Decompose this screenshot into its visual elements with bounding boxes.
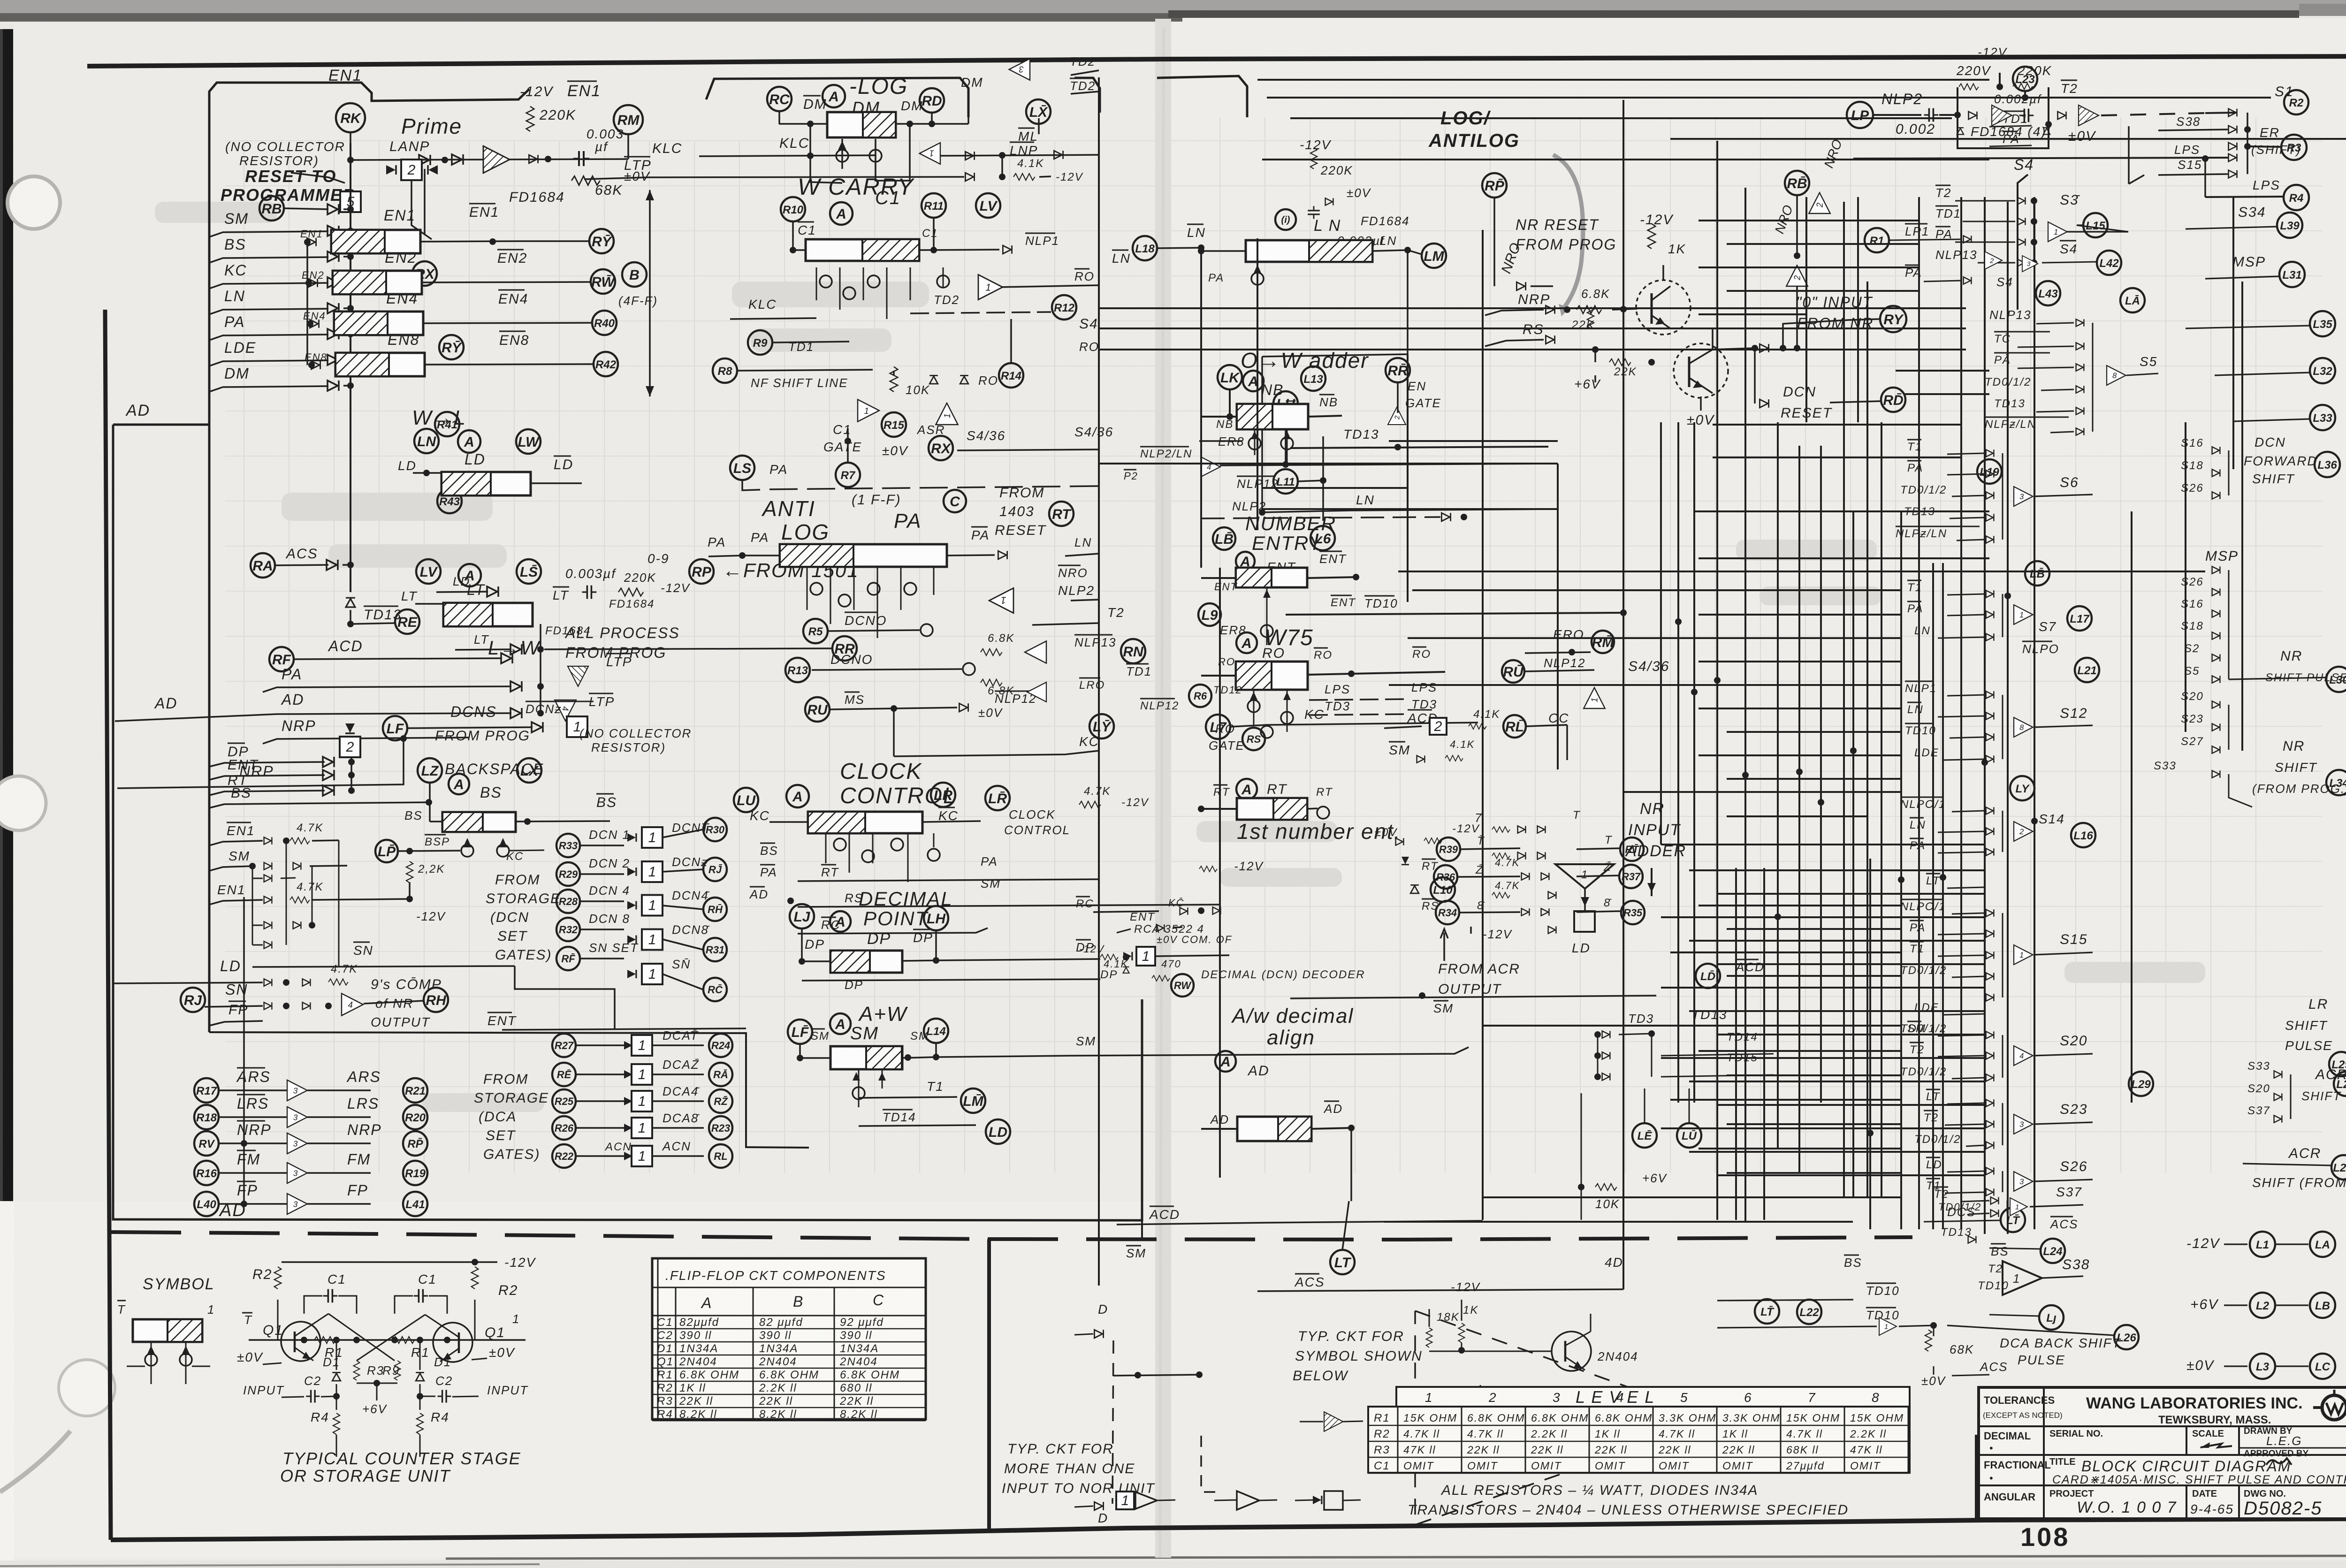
wire SM 47K row bbox=[209, 849, 347, 871]
diode pair c1 bbox=[929, 373, 998, 388]
connector LH bbox=[924, 906, 948, 930]
wire C1 pins bbox=[816, 267, 943, 319]
nor wires bbox=[1429, 1309, 1591, 1354]
res 10K c1 bbox=[890, 367, 930, 397]
flip-flop DM bbox=[803, 96, 923, 137]
circ ii bbox=[1275, 209, 1296, 230]
label -12V b bbox=[410, 882, 446, 923]
cap nlp2 b bbox=[1994, 92, 2042, 122]
box 5 bbox=[340, 191, 361, 212]
connector LFbar bbox=[788, 1020, 812, 1044]
wire BS right bbox=[516, 818, 610, 825]
level table box bbox=[1368, 1387, 1910, 1473]
amp row LRS bbox=[194, 1095, 427, 1129]
connector R42 bbox=[425, 352, 618, 376]
pins C1 row bbox=[820, 275, 949, 299]
label NLP12 L11 bbox=[1237, 436, 1326, 521]
scan: faint grid bleed bbox=[244, 117, 2256, 1173]
wire PA right bbox=[947, 551, 1007, 559]
wire LN down bbox=[1262, 250, 1408, 357]
counter R1 right bbox=[391, 1337, 450, 1360]
wire q out bbox=[1713, 344, 1786, 352]
connector R5 bbox=[803, 612, 933, 643]
label SM bot bbox=[1126, 1246, 1146, 1260]
label FD1684 c bbox=[1361, 214, 1410, 228]
label -12V adder bbox=[1440, 927, 1513, 961]
vertical DP bus2 bbox=[350, 757, 352, 791]
wire EN left feeds bbox=[306, 242, 308, 365]
dim arrow B bbox=[646, 190, 654, 396]
scan: bleedthrough smudges bbox=[155, 202, 2205, 1112]
wire LD row2 bbox=[436, 574, 498, 597]
wire box r bbox=[1581, 1093, 1582, 1220]
pins PA row bbox=[810, 583, 916, 607]
amp 9s comp bbox=[342, 993, 363, 1015]
wire box2 bend bbox=[411, 180, 432, 239]
pins SM bbox=[853, 1069, 886, 1107]
title wang bbox=[2086, 1394, 2303, 1426]
wire NLP2 pa bbox=[1071, 600, 1099, 601]
diode EN8 in bbox=[305, 351, 328, 369]
label KLC mid bbox=[779, 136, 809, 151]
adder box bbox=[1574, 911, 1595, 932]
hatch tri nlp2b bbox=[2079, 105, 2099, 126]
wire LN left bbox=[1198, 248, 1246, 254]
cap c bbox=[1308, 206, 1320, 219]
label pm0V q bbox=[1687, 396, 1715, 428]
wire dcn reset bbox=[1755, 348, 1833, 421]
label SMbar adder2 bbox=[1419, 992, 1454, 1015]
connector Acirc1 bbox=[458, 430, 480, 453]
flip-flop BS bbox=[442, 794, 617, 832]
label TD13 s37 bbox=[1941, 1226, 1976, 1243]
dcn row SN SET bbox=[556, 941, 727, 1001]
notes all resistors bbox=[1408, 1483, 1849, 1518]
stack bends bbox=[2129, 126, 2144, 184]
connector R10 bbox=[781, 197, 805, 221]
wire PA row bbox=[263, 666, 544, 692]
label S4-36 a bbox=[957, 428, 1099, 450]
label RT right bbox=[1307, 786, 1333, 819]
label BS bar r bbox=[1844, 1255, 1862, 1270]
label LTP mid bbox=[624, 157, 652, 173]
wire DP row bbox=[209, 743, 355, 767]
wire RM stem bbox=[627, 134, 629, 159]
flip-flop SM bbox=[830, 1046, 902, 1069]
gate cluster S4 bbox=[1865, 224, 2121, 284]
connector R40 bbox=[423, 311, 617, 335]
connector L33 bbox=[2233, 405, 2335, 430]
wire LN vert mid bbox=[1261, 357, 1263, 512]
connector A dp bbox=[830, 911, 851, 932]
transistor Q1 top bbox=[1636, 265, 1691, 335]
connector LRbar kc bbox=[985, 786, 1010, 810]
label RO w bbox=[1079, 340, 1099, 354]
label PAbar kc bbox=[760, 865, 777, 879]
amp adder s436 bbox=[1584, 659, 1669, 708]
label 41K adder bbox=[1469, 708, 1500, 729]
label NRP q bbox=[1485, 292, 1570, 315]
scan: center fold seam bbox=[1155, 19, 1171, 1558]
label RCA3522 rt bbox=[1134, 923, 1232, 945]
pulse shaper triangle prime bbox=[483, 146, 510, 173]
connector L31 bbox=[2205, 254, 2305, 287]
amp td10 bot bbox=[1717, 1308, 1937, 1335]
connector L10 bbox=[1410, 877, 1455, 902]
connector RX1 bbox=[412, 261, 437, 286]
label T2 mid bbox=[1032, 605, 1125, 625]
wire RC stem bbox=[779, 111, 827, 127]
label S4-36 b bbox=[1074, 425, 1113, 439]
flip-flop EN1 bbox=[331, 204, 499, 253]
label LN c bbox=[1314, 217, 1341, 235]
connector R14 bbox=[999, 319, 1023, 388]
label SM kc r bbox=[981, 876, 1001, 891]
AD inner bottom bbox=[209, 1032, 809, 1148]
gate cluster S3 bbox=[1935, 185, 2128, 266]
connector LR kc bbox=[931, 783, 955, 807]
label TD3 ro bbox=[1309, 697, 1437, 715]
counter R3 pair bbox=[353, 1361, 400, 1416]
label KCbar right bbox=[922, 807, 981, 823]
label TD2bar r bbox=[1070, 78, 1099, 94]
row LDbar acd bbox=[1696, 959, 1765, 988]
res 220K tr1 bbox=[1956, 63, 1991, 90]
connector R35 bbox=[1548, 897, 1645, 934]
cluster s37 b bbox=[1934, 1185, 2083, 1217]
node EN1bar label bbox=[567, 81, 601, 100]
stack LPS2 bbox=[2205, 178, 2309, 210]
ff table rows bbox=[652, 1287, 926, 1421]
diode mesh r1 bbox=[252, 875, 296, 882]
wire TD2 w bbox=[910, 293, 1051, 313]
diode EN2 in bbox=[302, 269, 325, 287]
wire T1 LM bbox=[859, 1079, 985, 1113]
connector L32 bbox=[2215, 358, 2335, 383]
counter top rail bbox=[282, 1255, 536, 1270]
counter pm0v right bbox=[472, 1345, 515, 1360]
label NLP12 b bbox=[1140, 699, 1179, 712]
label ACR shift2 bbox=[2243, 1146, 2346, 1190]
connector RDbar q bbox=[1830, 388, 1905, 412]
cap 0.003 LT bbox=[565, 566, 617, 599]
res 220K LT bbox=[618, 571, 691, 596]
nor 1K bbox=[1451, 1280, 1481, 1343]
label NLP2 tr bbox=[1881, 91, 1923, 107]
note 9s comp bbox=[371, 977, 442, 1029]
connector A dm bbox=[823, 85, 845, 107]
diode NLP1 bbox=[1003, 233, 1059, 254]
connector RK bbox=[336, 103, 365, 132]
wire KC long bbox=[1230, 707, 1478, 727]
label KLC rm bbox=[652, 141, 682, 156]
level table content bbox=[1368, 1390, 1910, 1473]
wire input KC bbox=[209, 262, 354, 289]
dcn row DCN 4 bbox=[556, 883, 727, 921]
wire input BS bbox=[209, 236, 354, 263]
note from storage dcn bbox=[486, 872, 561, 963]
res 68K q bbox=[1577, 287, 1638, 313]
connector LZ bbox=[418, 758, 442, 783]
diode TD13 bottom bbox=[346, 598, 355, 607]
dca row DCA4&#772; bbox=[552, 1084, 732, 1113]
gate cluster S6 bbox=[1896, 440, 2093, 543]
amp c1 left bbox=[858, 399, 879, 421]
label SM hand bbox=[850, 1024, 879, 1043]
label -12V rt bbox=[1199, 859, 1264, 873]
label RS q bbox=[1485, 322, 1555, 346]
note no collector 2 bbox=[579, 726, 692, 754]
label RS mid bbox=[798, 891, 1220, 907]
AD section outline bbox=[209, 83, 529, 422]
pin dm1 bbox=[836, 139, 848, 169]
connector L7 bbox=[1206, 715, 1230, 739]
label pm0v dcno bbox=[978, 706, 1003, 720]
label decoder bbox=[1201, 968, 1365, 981]
power L3 LC bbox=[2186, 1354, 2335, 1379]
middle outline right bbox=[1074, 76, 1247, 117]
page number 108 bbox=[2020, 1522, 2070, 1552]
flip-flop LT bbox=[443, 581, 569, 626]
title scale bbox=[2192, 1426, 2239, 1455]
label PA a bbox=[769, 462, 788, 477]
dcn row DCN 2 bbox=[556, 855, 727, 886]
connector RU bbox=[805, 692, 897, 722]
connector LV bbox=[416, 559, 441, 584]
wire LP row bbox=[1873, 108, 1961, 137]
box 2b bbox=[340, 723, 360, 757]
label DM top right bbox=[961, 75, 983, 90]
label 4D bbox=[1605, 1255, 1623, 1270]
connector R43 bbox=[437, 489, 462, 513]
label ENT hand bbox=[1267, 560, 1296, 574]
label prime pencil bbox=[401, 114, 462, 138]
connector L6 bbox=[1310, 526, 1335, 550]
dca row DCAZ&#772; bbox=[552, 1058, 732, 1086]
title project bbox=[2049, 1485, 2186, 1519]
transistor Q2 top bbox=[1674, 343, 1728, 398]
hatched tri LTP bbox=[568, 666, 588, 686]
connector A kc bbox=[786, 785, 809, 807]
dashed separator left page bbox=[111, 1232, 988, 1239]
label NRO vert bbox=[1499, 241, 1524, 275]
AD section outline left lower bbox=[208, 422, 211, 1032]
label -12V rt2 bbox=[1079, 943, 1129, 973]
stack LPS bbox=[1853, 143, 2237, 162]
label 47K c2 bbox=[1492, 880, 1520, 898]
connector R37 bbox=[1548, 861, 1643, 899]
label LTP1 bbox=[606, 654, 632, 669]
label NR shift bbox=[2229, 738, 2346, 807]
note typ ckt more bbox=[1002, 1441, 1155, 1496]
connector LF bbox=[383, 703, 543, 744]
counter cross bar bbox=[242, 1312, 526, 1340]
counter R4 right bbox=[417, 1410, 449, 1457]
right page extra mesh bbox=[1661, 221, 1985, 1175]
label ANTI LOG pencil bbox=[761, 496, 830, 544]
label DP left bbox=[799, 929, 830, 965]
flip-flop LD bbox=[442, 451, 573, 495]
node EN1 top label bbox=[328, 67, 362, 84]
label PA ln bbox=[1208, 262, 1264, 293]
title drawnby2 bbox=[2239, 1426, 2346, 1465]
label -LOG pencil bbox=[849, 74, 908, 99]
connector LP2 bbox=[375, 835, 460, 862]
connector R36 bbox=[1434, 864, 1549, 889]
transistor circuit top center bbox=[1428, 108, 1520, 151]
right page horizontal wire ladder bbox=[1099, 80, 2346, 1222]
connector LHbar2 bbox=[1273, 391, 1298, 468]
label RS rt bbox=[1422, 899, 1439, 913]
legend sym3 bbox=[1295, 1491, 1361, 1510]
connector LSbar bbox=[517, 559, 541, 584]
box dcnz bbox=[526, 701, 594, 737]
res 220K c bbox=[1310, 147, 1353, 177]
wire EN vertical feed bbox=[424, 169, 426, 235]
wire to RY bbox=[1783, 319, 1879, 348]
label pm0v c1 bbox=[882, 443, 908, 458]
gate s27 bbox=[1900, 1001, 1985, 1035]
wire adder bottom bbox=[1290, 996, 1656, 998]
diode mesh r3 bbox=[252, 941, 272, 948]
wire RT row bbox=[209, 773, 355, 796]
nor dashed box bbox=[1201, 1436, 1220, 1492]
amp LTP bbox=[555, 700, 576, 721]
connector B dim bbox=[618, 262, 658, 308]
note no collector resistor bbox=[225, 139, 345, 168]
ff table headers bbox=[652, 1292, 926, 1316]
connector R15 bbox=[882, 412, 945, 437]
ff table outer bbox=[652, 1258, 926, 1419]
wire LANP row bbox=[350, 159, 628, 160]
connector L29a bbox=[2129, 1072, 2153, 1096]
connector RP1501 bbox=[689, 559, 859, 584]
title block frame bbox=[1979, 1387, 2346, 1519]
wire TD13 nb bbox=[1290, 427, 1548, 450]
label ML bbox=[1018, 118, 1039, 144]
connector Acirc3 bbox=[449, 774, 469, 794]
wire KLC c1 bbox=[730, 318, 816, 319]
border frame left bbox=[105, 310, 111, 1540]
counter R2 right bbox=[472, 1267, 518, 1298]
wire RP stem bbox=[1494, 198, 1553, 290]
note from storage dca bbox=[474, 1072, 549, 1162]
label NRP2 bbox=[239, 763, 274, 780]
symbol ff box bbox=[117, 1301, 215, 1342]
label ACDbar adder bbox=[1384, 710, 1447, 735]
connector LT L22 bbox=[1755, 1299, 1821, 1324]
label FD1684 LT bbox=[545, 598, 655, 637]
label RCbar mid bbox=[798, 917, 988, 934]
label PA hand bbox=[894, 510, 922, 533]
stack ER bbox=[2229, 125, 2307, 160]
counter R2 left bbox=[252, 1267, 281, 1289]
title date bbox=[2190, 1485, 2239, 1519]
label NRO top bbox=[1821, 137, 1845, 170]
box 2 bbox=[386, 160, 438, 180]
label KC right bbox=[894, 734, 1099, 756]
label SM left bbox=[797, 1029, 830, 1061]
label RTbar left bbox=[1198, 785, 1237, 812]
counter Q1 right bbox=[425, 1315, 505, 1362]
label OW adder pencil bbox=[1241, 348, 1369, 373]
connector L19 bbox=[1977, 459, 2002, 484]
amp NLP13 bbox=[1025, 635, 1116, 663]
amp en gate bbox=[1388, 382, 1406, 425]
connector L13 bbox=[1301, 366, 1325, 391]
note all process bbox=[564, 624, 680, 661]
label W-L pencil bbox=[412, 406, 466, 429]
connector RM bbox=[614, 105, 643, 134]
label DPbar right bbox=[902, 929, 939, 964]
label W CARRY bbox=[798, 174, 915, 200]
pins RO bbox=[1248, 690, 1293, 738]
wire LD right bbox=[531, 482, 582, 484]
dca row DCAT&#772; bbox=[552, 1028, 732, 1057]
label 1st number pencil bbox=[1237, 819, 1401, 844]
connector RE bbox=[395, 609, 419, 634]
connector LV2 bbox=[976, 193, 1000, 218]
connector RD bbox=[920, 88, 944, 113]
amp TD2 tri bbox=[1009, 59, 1030, 80]
label MSP stack bbox=[2181, 548, 2239, 683]
wire TD10 ent bbox=[1286, 596, 1627, 616]
wire collector join bbox=[1663, 328, 1713, 350]
flip-flop ENT bbox=[1236, 568, 1307, 587]
wire DM loop bbox=[967, 88, 969, 124]
wire input LDE bbox=[209, 339, 354, 366]
counter D1 right bbox=[416, 1337, 451, 1381]
connector L39 bbox=[2186, 205, 2302, 238]
cluster s26 bbox=[1926, 1157, 2093, 1196]
amp PA right bbox=[989, 588, 1013, 613]
title dwgno bbox=[2244, 1489, 2322, 1519]
wire EN1b row bbox=[209, 881, 413, 905]
wire pm0v rt bbox=[1375, 822, 1480, 845]
title tolerances bbox=[1983, 1394, 2063, 1420]
connector RRbar nb bbox=[1386, 358, 1441, 410]
label LNP bbox=[1010, 142, 1038, 158]
counter cross wires bbox=[328, 1314, 425, 1361]
connector RH bbox=[364, 988, 448, 1012]
res 22K q bbox=[1571, 307, 1595, 331]
title decimal bbox=[1984, 1430, 2031, 1454]
label LN pa bbox=[1065, 535, 1099, 556]
scan: top gray band bbox=[0, 0, 2346, 16]
box 1 rt bbox=[1123, 947, 1229, 997]
title title2 bbox=[2049, 1457, 2346, 1486]
adder row 2 bbox=[1492, 852, 1545, 868]
wire DPbar long bbox=[802, 940, 1100, 981]
flip-flop EN8 bbox=[335, 331, 529, 376]
label DP under bbox=[845, 978, 863, 992]
note reset to programmer bbox=[221, 167, 356, 205]
wire nlp2ln long bbox=[1220, 464, 1558, 465]
diode EN1 in bbox=[300, 228, 323, 246]
amp ML bbox=[920, 143, 940, 164]
wire RU down bbox=[893, 708, 895, 756]
label C1 hand bbox=[875, 188, 901, 208]
res 68K bot bbox=[1925, 1325, 1974, 1356]
label pm0V c bbox=[1325, 186, 1371, 206]
label S33 pos bbox=[2154, 760, 2220, 778]
connector R41 bbox=[435, 412, 459, 436]
label S4 trap bbox=[2014, 156, 2034, 310]
label W75 pencil bbox=[1264, 625, 1314, 650]
scan: bottom paper edge bbox=[0, 1560, 2346, 1568]
label NB hand bbox=[1261, 381, 1284, 398]
connector R34 bbox=[1436, 899, 1549, 924]
